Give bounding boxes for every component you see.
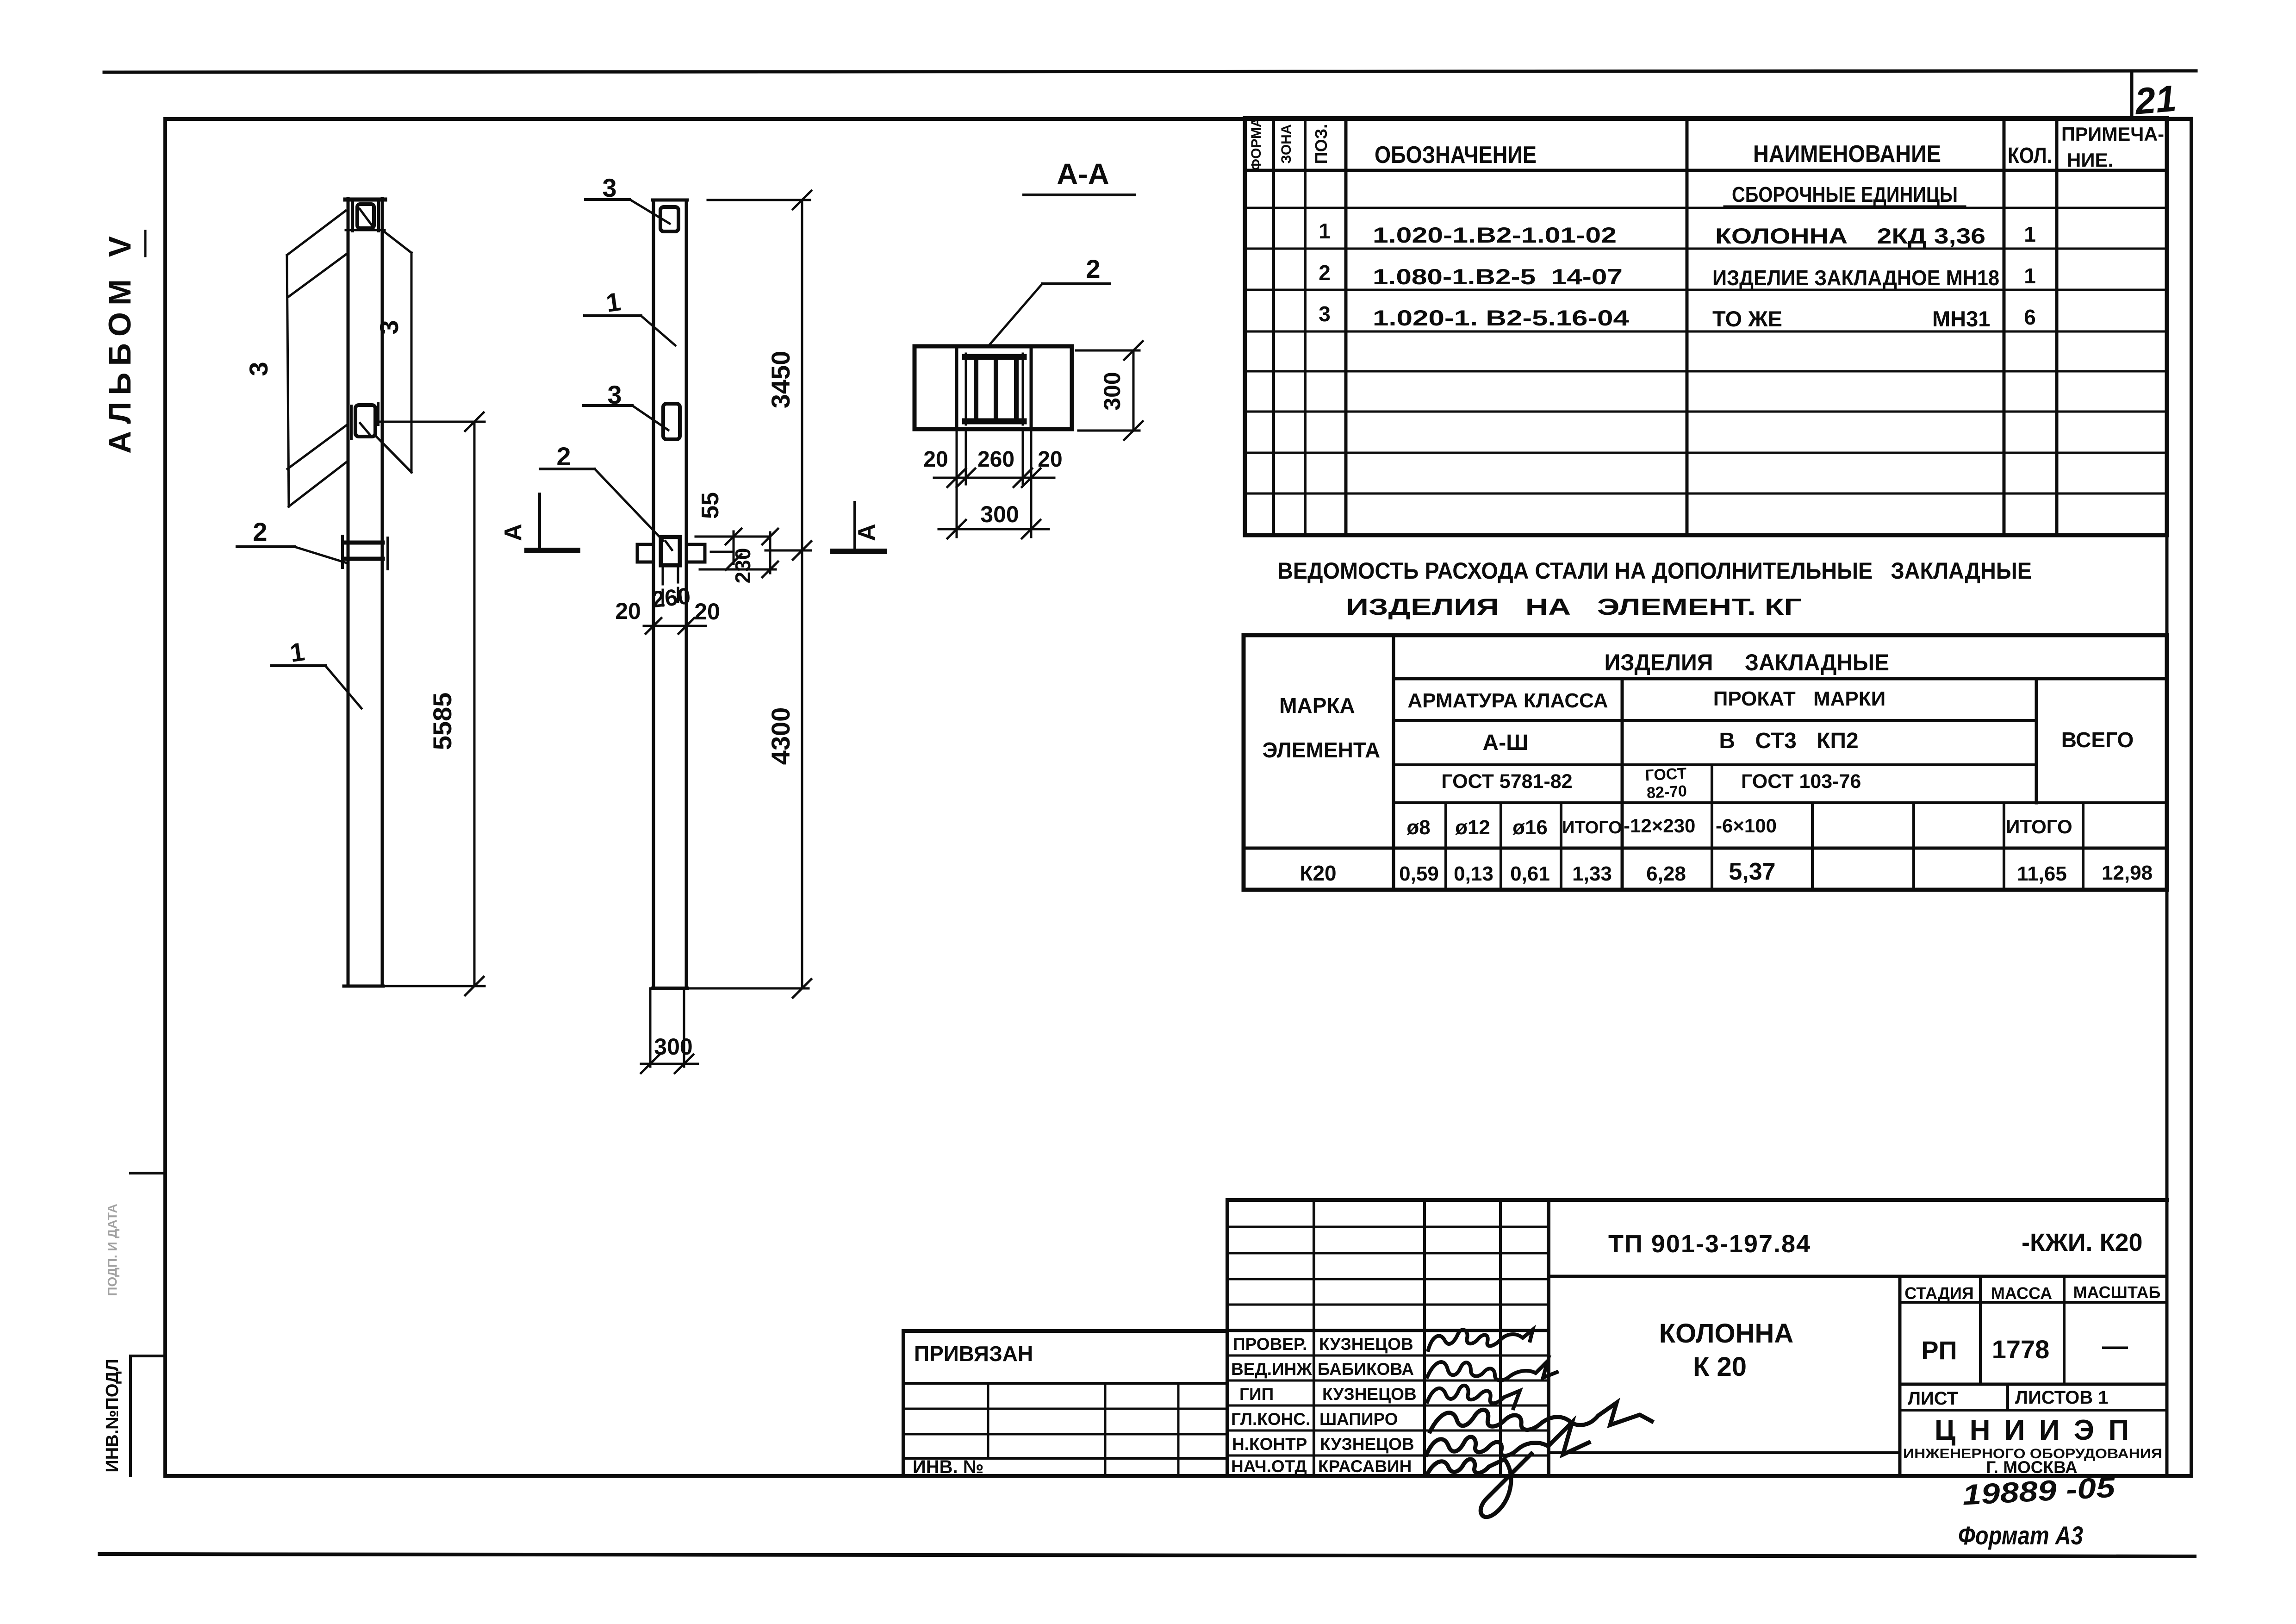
signature 6 krasavin [1427,1454,1531,1517]
dim 300 bottom text [980,501,1019,527]
svg-text:ОБОЗНАЧЕНИЕ: ОБОЗНАЧЕНИЕ [1375,142,1537,169]
column K20 side view: left edge [347,199,350,986]
label 3 top underline [585,198,630,201]
big box list row bottom [1900,1409,2167,1412]
right flag bottom edge 1 [375,436,411,472]
svg-text:300: 300 [1099,372,1125,410]
label 2 leader [294,547,347,563]
svg-text:Формат А3: Формат А3 [1958,1521,2083,1550]
spec col line kol [2055,118,2059,535]
anchor stud 1 [974,360,978,418]
signature 1 kuznetsov [1428,1330,1533,1350]
svg-text:260: 260 [977,447,1014,472]
dim 3450 top extension [708,199,810,201]
svg-text:БАБИКОВА: БАБИКОВА [1318,1360,1414,1379]
anchor stud 2 [994,360,998,418]
signature 5 kuznetsov [1426,1422,1589,1456]
signature 4 shapiro [1430,1403,1652,1431]
anchor plate top bar [965,354,1024,360]
label 2 console text [556,442,571,471]
left margin tick 2 [131,1355,165,1357]
svg-text:0,59: 0,59 [1399,862,1439,885]
page number box [2130,72,2134,119]
staff grid v5 [1547,1200,1550,1476]
steel col vsego-bottom [2082,803,2084,890]
svg-text:-12×230: -12×230 [1624,815,1695,837]
label 1 text [604,287,622,318]
svg-text:0,13: 0,13 [1454,862,1493,885]
outer bottom border line [100,1554,2195,1556]
steel col empty1 [1811,803,1814,890]
privyazan row 4 [903,1457,1227,1460]
dim 300 bottom tick 2 [1022,520,1040,538]
svg-text:ПРОВЕР.: ПРОВЕР. [1233,1335,1307,1354]
spec row line 7 [1245,452,2167,454]
steel col armatura-prokat [1621,679,1624,890]
svg-text:1,33: 1,33 [1572,862,1612,885]
middle plate weld tick right [377,404,380,425]
left flag bottom edge 2 [289,462,347,506]
privyazan text [914,1342,1033,1366]
title block top line [1227,1198,2167,1202]
svg-text:1: 1 [288,637,306,668]
label 3 top leader [630,200,670,224]
dim 300 bottom tick 1 [947,520,966,538]
column front view: bottom cap [653,987,687,990]
svg-text:ЭЛЕМЕНТА: ЭЛЕМЕНТА [1263,738,1381,762]
section inner line left [955,346,958,429]
svg-text:20: 20 [615,598,641,624]
staff names [1231,1335,1417,1476]
staff row g [1227,1380,1549,1382]
steel table outer [1244,635,2167,890]
right flag bottom edge 2 [383,443,411,472]
section ext line d [1030,429,1033,537]
dim 300 right ext bottom [1078,430,1139,432]
section body outer rect [915,346,1072,429]
steel row class bottom [1394,763,2036,766]
svg-text:3: 3 [1319,302,1331,326]
dim 3450 text [766,351,795,409]
privyazan row 1 [903,1382,1227,1385]
svg-text:ЗОНА: ЗОНА [1279,124,1294,163]
spec row line 8 [1245,493,2167,495]
spec col line zona [1304,118,1307,535]
dim 260 text [977,447,1014,472]
anchor stud 3 [1014,360,1019,418]
dim 3450 tick top [793,191,811,209]
steel row dia bottom [1244,847,2167,850]
label 3 left flag [244,362,273,376]
spec header texts [1249,117,2164,206]
svg-text:260: 260 [651,583,692,612]
margin label albom V [102,236,137,454]
dim 20-260-20 line [644,625,706,627]
svg-text:300: 300 [980,501,1019,527]
staff row h [1227,1405,1549,1407]
svg-text:ГОСТ: ГОСТ [1645,765,1687,785]
left flag top edge 1 [287,211,346,255]
svg-text:ИНВ.№ПОДЛ: ИНВ.№ПОДЛ [103,1359,122,1472]
section ext line b [965,429,967,484]
big box v massa left [1979,1276,1982,1384]
steel col empty2 [1912,803,1915,890]
dim 230 line [769,532,772,573]
dim 300 right text [1099,372,1125,410]
label 3 middle underline [583,404,632,407]
svg-text:СТАДИЯ: СТАДИЯ [1904,1284,1974,1303]
svg-text:55: 55 [697,492,724,519]
staff row b [1227,1252,1549,1255]
privyazan row 2 [903,1408,1227,1410]
dim 20-260-20 tick 1 [646,618,661,634]
svg-text:1: 1 [1319,219,1331,243]
plate 2 flange top [346,541,383,545]
dim 20 text right [694,599,720,625]
section ext line a [956,429,958,537]
dim 55-230 extension B [700,568,776,571]
svg-text:ø8: ø8 [1406,816,1430,839]
spec row line 3 [1245,289,2167,291]
spec col line poz [1344,118,1348,535]
svg-text:А: А [500,524,527,541]
dim 4300 middle extension [765,550,811,552]
svg-text:1.020-1.В2-1.01-02: 1.020-1.В2-1.01-02 [1373,223,1617,247]
svg-text:КУЗНЕЦОВ: КУЗНЕЦОВ [1320,1435,1414,1454]
svg-text:5585: 5585 [428,693,457,750]
svg-text:КОЛОННА 2КД 3,36: КОЛОННА 2КД 3,36 [1715,224,1985,248]
column front view: right edge [685,200,688,988]
left flag left edge [287,255,289,506]
svg-text:НИЕ.: НИЕ. [2067,149,2113,171]
spec data rows [1319,219,2036,331]
middle plate diagonal [360,423,370,435]
svg-text:РП: РП [1921,1336,1957,1365]
svg-text:ПОЗ.: ПОЗ. [1312,124,1331,164]
top plate MN31 [660,207,678,231]
svg-text:-КЖИ. К20: -КЖИ. К20 [2022,1229,2143,1256]
svg-text:1.020-1. В2-5.16-04: 1.020-1. В2-5.16-04 [1373,306,1629,330]
svg-text:ИТОГО: ИТОГО [1562,818,1622,837]
privyazan row 3 [903,1433,1227,1436]
console left wing [637,544,653,562]
svg-text:1: 1 [2024,264,2036,288]
sborochnye underline [1724,206,1965,208]
spec col line oboznachenie [1686,118,1689,535]
dim 20-260-20 line [934,477,1054,479]
svg-text:К20: К20 [1300,861,1336,885]
svg-text:ИЗДЕЛИЕ ЗАКЛАДНОЕ МН18: ИЗДЕЛИЕ ЗАКЛАДНОЕ МН18 [1712,266,1999,290]
svg-text:ЛИСТ: ЛИСТ [1908,1388,1958,1409]
svg-text:ИТОГО: ИТОГО [2006,816,2072,837]
staff grid v3 [1423,1200,1426,1476]
dim 300 right line [1132,350,1135,431]
svg-text:5,37: 5,37 [1729,858,1775,885]
dim 300 tick 1 [641,1055,660,1073]
vedomost heading line 1 [1277,558,2032,620]
privyazan col 1 [987,1383,989,1458]
spec header bottom line [1245,169,2167,172]
column front view: left edge [652,200,655,988]
column side view: top cap [345,198,385,202]
dim 4300 text [766,707,795,765]
svg-text:82-70: 82-70 [1646,782,1687,802]
svg-text:11,65: 11,65 [2017,862,2067,885]
top plate diagonal [360,209,373,227]
svg-text:4300: 4300 [766,707,795,765]
label 1 leader [641,316,675,345]
label 3 middle leader [632,406,668,430]
dim 5585 bottom extension line [383,985,485,987]
big box v stadia left [1898,1276,1902,1476]
svg-text:3: 3 [602,173,616,202]
steel col d8-d12 [1444,803,1447,890]
privyazan block top [903,1329,1227,1333]
svg-text:ПРИВЯЗАН: ПРИВЯЗАН [914,1342,1033,1366]
svg-text:ЛИСТОВ 1: ЛИСТОВ 1 [2015,1387,2109,1408]
signature 2 babikova [1427,1361,1557,1380]
svg-text:ФОРМА: ФОРМА [1249,117,1264,170]
svg-text:НАЧ.ОТД: НАЧ.ОТД [1231,1457,1307,1476]
dim 55 tick 2 [726,554,741,570]
dim 300 right tick top [1124,341,1143,360]
svg-text:К 20: К 20 [1693,1352,1747,1382]
dim 5585 tick bottom [465,977,484,995]
dim 260 text [651,583,692,612]
tick c [1014,468,1032,487]
dim 300 ext right [683,988,685,1067]
svg-text:—: — [2102,1331,2128,1360]
svg-text:КОЛ.: КОЛ. [2008,144,2052,168]
top plate weld tick right [377,202,380,231]
left flag top edge 2 [288,253,348,297]
svg-text:ПРИМЕЧА-: ПРИМЕЧА- [2061,123,2164,145]
svg-text:КРАСАВИН: КРАСАВИН [1318,1457,1412,1476]
svg-text:2: 2 [556,442,571,471]
label 2 underline [237,545,294,548]
steel row izdeliya bottom [1394,677,2167,681]
margin label inv nr podl [103,1359,122,1472]
big box stadia values bottom [1900,1383,2167,1386]
label 3 right flag [374,320,404,334]
section mark A left vertical [538,494,541,549]
plate 2 weld tick left [341,536,344,568]
spec col line naimenovanie [2003,118,2006,535]
big box v masshtab left [2063,1276,2066,1384]
dim 20-260-20 tick 2 [678,618,694,634]
label 1 underline [585,314,641,317]
spec row line 6 [1245,411,2167,413]
dim 4300 bottom extension [686,987,809,990]
big box row tp bottom [1549,1275,2167,1278]
section label 2 underline [1042,282,1110,285]
section mark A left base [527,548,578,553]
plate 2 flange bottom [346,557,383,561]
svg-text:В СТ3 КП2: В СТ3 КП2 [1719,729,1858,753]
staff row j [1227,1455,1549,1457]
middle plate MN31 inner rect [355,405,375,437]
svg-text:ø12: ø12 [1455,816,1490,839]
dim 230 tick 1 [762,529,778,544]
svg-text:ВЕДОМОСТЬ РАСХОДА СТАЛИ НА ДОП: ВЕДОМОСТЬ РАСХОДА СТАЛИ НА ДОПОЛНИТЕЛЬНЫ… [1277,558,2032,584]
section A-A title [1057,157,1109,191]
svg-text:21: 21 [2132,77,2178,122]
svg-text:3: 3 [374,320,404,334]
column front view: top cap [653,199,687,202]
svg-text:ГЛ.КОНС.: ГЛ.КОНС. [1231,1410,1310,1429]
svg-text:1: 1 [604,287,622,318]
staff row d [1227,1304,1549,1306]
dim 300 tick 2 [675,1055,693,1073]
footer format handwritten [1958,1521,2083,1550]
tick a [947,468,966,487]
svg-text:МАРКА: МАРКА [1279,693,1355,718]
spec row line 4 [1245,331,2167,333]
svg-text:6,28: 6,28 [1646,862,1686,885]
dim 55-230 extension A [696,536,770,538]
big box v listov left [2006,1384,2009,1410]
svg-text:КОЛОННА: КОЛОННА [1659,1318,1794,1349]
left flag bottom edge 1 [287,424,348,469]
svg-text:2: 2 [253,517,267,546]
svg-text:ПОДП. И ДАТА: ПОДП. И ДАТА [105,1204,119,1296]
label 2 console underline [540,468,595,470]
big box stadia header bottom [1900,1301,2167,1304]
svg-text:АЛЬБОМ V: АЛЬБОМ V [102,236,137,454]
svg-text:МАСШТАБ: МАСШТАБ [2073,1283,2161,1302]
signature 3 kuznetsov [1427,1386,1520,1408]
svg-text:2: 2 [1319,261,1331,285]
steel col marka [1392,635,1395,890]
svg-text:1.080-1.В2-5 14-07: 1.080-1.В2-5 14-07 [1373,264,1623,289]
svg-text:12,98: 12,98 [2102,862,2153,884]
left margin tick 1 [131,1172,165,1174]
dim 4300 line [801,550,803,988]
steel col vsego-top [2035,679,2038,803]
svg-text:КУЗНЕЦОВ: КУЗНЕЦОВ [1322,1385,1417,1404]
dim 4300 bottom tick [793,979,811,998]
label 1 underline [272,664,325,667]
middle plate weld tick left [350,406,353,439]
svg-text:1: 1 [2024,222,2036,246]
dim 300 right tick bottom [1124,421,1143,440]
svg-text:3450: 3450 [766,351,795,409]
dim 4300 middle tick [793,541,811,560]
spec table outer [1245,118,2167,535]
plate 2 weld tick right [386,538,389,569]
dim 300 right ext top [1076,350,1139,352]
dim 5585 top extension line [375,421,485,423]
spec row line 1 [1245,207,2167,209]
hidden dashed line left [662,568,664,606]
dim 55-230 short line [711,551,732,553]
steel col d16-itogo [1560,803,1562,890]
spec col line forma [1272,118,1275,535]
dim 300 line [641,1063,698,1065]
dim 20 right text [1038,447,1062,472]
staff row e [1227,1329,1549,1332]
privyazan col 2 [1104,1383,1107,1476]
inv nr text [913,1457,983,1477]
column side view bottom cap [344,985,383,988]
svg-text:20: 20 [694,599,720,625]
dim 3450 line [801,200,803,550]
right double border line [2165,119,2169,1476]
svg-text:1778: 1778 [1992,1335,2050,1364]
console plate diagonal tick [666,541,672,550]
top plate MN31 bottom edge [346,229,385,231]
svg-text:Н.КОНТР: Н.КОНТР [1232,1435,1307,1454]
svg-text:20: 20 [923,447,948,472]
svg-text:ГОСТ 5781-82: ГОСТ 5781-82 [1441,770,1572,793]
svg-text:6: 6 [2024,305,2036,329]
staff row c [1227,1278,1549,1280]
svg-text:НАИМЕНОВАНИЕ: НАИМЕНОВАНИЕ [1753,141,1941,168]
dim 300 ext left [649,988,652,1067]
tick d [1022,468,1040,487]
tick b [957,468,975,487]
svg-text:ИЗДЕЛИЯ: ИЗДЕЛИЯ [1605,650,1713,675]
middle plate MN31 [663,404,680,439]
section A-A title underline [1024,194,1135,196]
svg-text:3: 3 [244,362,273,376]
big box kolonna cell bottom [1549,1451,1900,1454]
staff row f [1227,1355,1549,1357]
dim 300 bottom line [939,528,1049,531]
section label 2 text [1086,254,1100,283]
section label 2 leader [989,284,1042,346]
svg-text:ø16: ø16 [1512,816,1548,839]
plate edge left [965,354,967,425]
steel col itogo2 [2003,803,2005,890]
column side view: right edge [381,199,384,986]
steel col d12-d16 [1500,803,1502,890]
section mark A right base [833,549,884,554]
svg-text:СБОРОЧНЫЕ ЕДИНИЦЫ: СБОРОЧНЫЕ ЕДИНИЦЫ [1732,182,1958,206]
svg-text:А-Ш: А-Ш [1483,731,1529,755]
underline under V of albom [144,231,147,256]
label 1 leader [325,666,361,708]
steel col gost82-gost103 [1711,765,1713,890]
svg-text:ТП 901-3-197.84: ТП 901-3-197.84 [1608,1230,1811,1258]
steel table texts [1263,650,2153,885]
svg-text:ГОСТ 103-76: ГОСТ 103-76 [1741,770,1861,793]
staff row i [1227,1430,1549,1432]
svg-text:ЗАКЛАДНЫЕ: ЗАКЛАДНЫЕ [1745,650,1889,675]
dim 20-260-20 text left [615,598,641,624]
label 1 text [288,637,306,668]
svg-text:ТО ЖЕ: ТО ЖЕ [1712,306,1782,331]
svg-text:ЦНИИЭП: ЦНИИЭП [1935,1414,2129,1446]
section mark A right letter [853,524,880,541]
right flag right edge [411,253,413,472]
section mark A left letter [500,524,527,541]
svg-text:ИНВ. №: ИНВ. № [913,1457,983,1477]
steel row armatura bottom [1394,719,2036,722]
svg-text:АРМАТУРА КЛАССА: АРМАТУРА КЛАССА [1407,689,1608,712]
label 3 middle text [607,380,622,409]
outer top border line [104,71,2196,72]
svg-text:0,61: 0,61 [1510,862,1550,885]
svg-text:МАССА: МАССА [1991,1284,2052,1303]
dim 55 text [697,492,724,519]
svg-text:ШАПИРО: ШАПИРО [1319,1410,1398,1429]
svg-text:230: 230 [731,548,755,584]
label 2 console leader [595,469,663,541]
staff row a [1227,1226,1549,1228]
page number box bottom [2132,117,2191,120]
svg-text:А: А [853,524,880,541]
